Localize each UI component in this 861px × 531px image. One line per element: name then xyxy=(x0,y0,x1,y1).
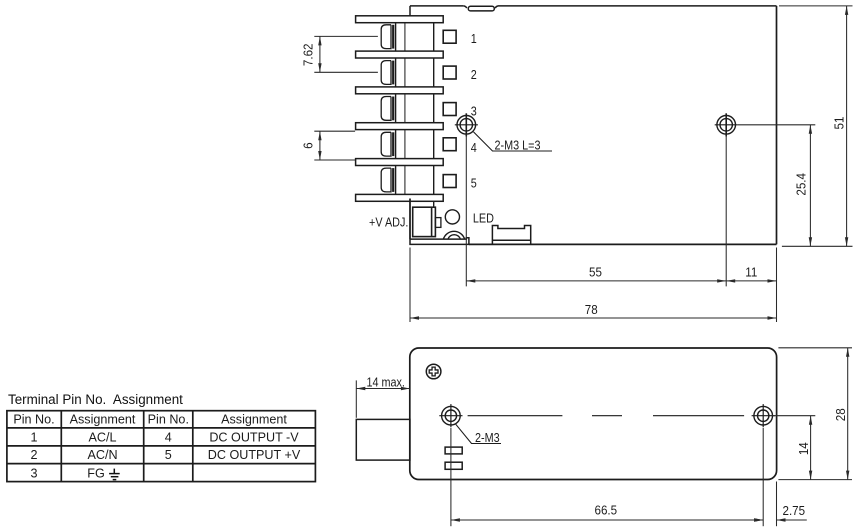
svg-text:2: 2 xyxy=(471,67,477,82)
svg-text:14: 14 xyxy=(796,442,811,455)
dimension 11 xyxy=(726,279,776,282)
mounting hole left 2-M3 xyxy=(455,113,478,136)
hex mounting hole right xyxy=(752,404,775,427)
vent slot 2 xyxy=(445,462,462,469)
svg-text:5: 5 xyxy=(471,176,477,191)
svg-text:Assignment: Assignment xyxy=(221,413,287,427)
svg-text:2: 2 xyxy=(30,448,37,462)
svg-text:Pin No.: Pin No. xyxy=(148,413,189,427)
svg-text:5: 5 xyxy=(165,448,172,462)
svg-text:28: 28 xyxy=(833,408,848,421)
terminal separator fin 5 xyxy=(356,159,444,166)
pin marker square 2 xyxy=(443,66,456,79)
dimension 14 max xyxy=(356,380,410,417)
dimension 25.4 xyxy=(738,125,816,247)
terminal screw 1 xyxy=(381,25,393,49)
svg-text:DC OUTPUT -V: DC OUTPUT -V xyxy=(209,430,299,444)
svg-text:3: 3 xyxy=(471,103,477,118)
terminal block body vertical lines xyxy=(396,19,434,199)
svg-text:2.75: 2.75 xyxy=(783,503,806,518)
svg-text:6: 6 xyxy=(301,142,316,149)
svg-text:Pin No.: Pin No. xyxy=(13,413,54,427)
svg-text:LED: LED xyxy=(473,210,494,225)
svg-text:FG: FG xyxy=(87,467,105,481)
svg-text:51: 51 xyxy=(832,116,847,129)
philips screw xyxy=(426,364,441,379)
table title xyxy=(8,392,183,407)
svg-text:2-M3: 2-M3 xyxy=(475,430,500,445)
output connector CN xyxy=(492,226,530,245)
chassis bottom flange bar xyxy=(410,199,469,245)
terminal block lower left edge xyxy=(409,199,411,240)
dimension 7.62 xyxy=(314,36,378,72)
dimension 55 xyxy=(466,134,726,286)
terminal block lower right stub xyxy=(433,201,435,207)
AC inlet xyxy=(356,419,410,460)
svg-text:78: 78 xyxy=(585,302,598,317)
svg-text:4: 4 xyxy=(165,430,172,444)
dimension 6 xyxy=(314,131,355,160)
dimension 2.75 xyxy=(750,482,807,527)
svg-text:AC/L: AC/L xyxy=(89,430,117,444)
svg-text:+V ADJ.: +V ADJ. xyxy=(369,215,408,230)
pin number labels xyxy=(471,31,477,191)
svg-text:1: 1 xyxy=(30,430,37,444)
svg-text:3: 3 xyxy=(30,467,37,481)
svg-text:55: 55 xyxy=(589,265,602,280)
svg-text:4: 4 xyxy=(471,140,477,155)
terminal screw 2 xyxy=(381,61,393,85)
svg-text:1: 1 xyxy=(471,31,477,46)
pin marker square 5 xyxy=(443,175,456,188)
svg-text:11: 11 xyxy=(745,265,757,280)
svg-text:AC/N: AC/N xyxy=(87,448,117,462)
dimension 28 xyxy=(778,348,852,480)
dimension 51 xyxy=(779,6,853,246)
hex mounting hole left xyxy=(439,404,462,427)
terminal separator fin 1 xyxy=(356,16,444,23)
LED indicator circle xyxy=(445,210,459,224)
pin marker square 4 xyxy=(443,138,456,151)
terminal separator fin 3 xyxy=(356,87,444,94)
svg-text:DC OUTPUT +V: DC OUTPUT +V xyxy=(208,448,301,462)
terminal separator fin 4 xyxy=(356,123,444,130)
vent slot 1 xyxy=(445,447,462,454)
terminal pin assignment table xyxy=(0,405,340,515)
pin marker square 1 xyxy=(443,30,456,43)
svg-text:14 max.: 14 max. xyxy=(366,374,404,389)
dimension 14 xyxy=(772,416,815,480)
mounting hole right 2-M3 xyxy=(715,113,738,136)
terminal separator fin 6 xyxy=(356,194,444,201)
svg-text:2-M3 L=3: 2-M3 L=3 xyxy=(495,138,541,153)
pin marker square 3 xyxy=(443,103,456,116)
terminal screw 4 xyxy=(381,132,393,156)
leader 2-M3 side xyxy=(456,424,501,443)
+V ADJ potentiometer xyxy=(413,207,441,236)
leader 2-M3 L=3 xyxy=(474,132,553,151)
top cover latch tab xyxy=(464,6,498,11)
terminal screw 5 xyxy=(381,168,393,192)
FG ground symbol xyxy=(109,469,120,480)
center dashed line xyxy=(468,415,744,417)
svg-text:66.5: 66.5 xyxy=(595,503,618,518)
terminal screw 3 xyxy=(381,97,393,121)
side view case outline xyxy=(410,348,777,480)
top view case outline xyxy=(410,6,777,245)
svg-text:7.62: 7.62 xyxy=(301,43,316,66)
dimension 66.5 xyxy=(451,428,763,526)
svg-text:Assignment: Assignment xyxy=(70,413,136,427)
svg-text:25.4: 25.4 xyxy=(794,173,809,196)
ground screw half circle xyxy=(443,231,464,239)
dimension 78 xyxy=(410,248,777,323)
terminal separator fin 2 xyxy=(356,51,444,58)
